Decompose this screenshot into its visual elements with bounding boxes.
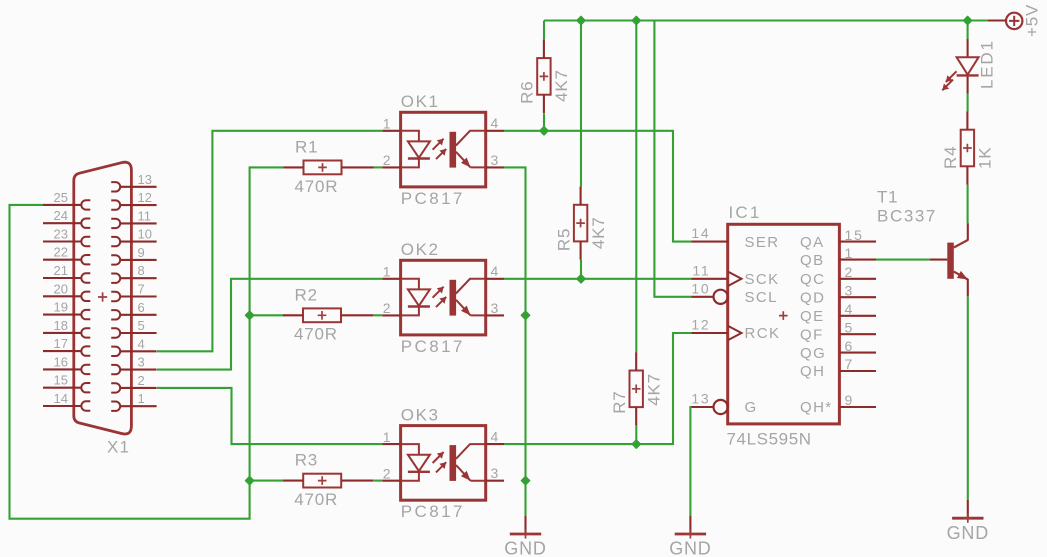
- svg-text:5: 5: [138, 318, 145, 333]
- optocoupler OK2 phototransistor: [450, 280, 457, 316]
- svg-text:14: 14: [691, 225, 710, 241]
- X1 pin 15: [81, 383, 90, 392]
- wire R4 to T1 collector: [967, 185, 969, 224]
- X1 pin 14: [81, 401, 90, 410]
- svg-text:BC337: BC337: [877, 207, 937, 226]
- svg-text:16: 16: [54, 354, 68, 369]
- X1 pin 19: [81, 310, 90, 319]
- svg-text:SCK: SCK: [745, 271, 780, 288]
- junction rail/R5: [577, 16, 585, 24]
- wire T1 emitter to GND: [967, 296, 969, 500]
- svg-text:QE: QE: [800, 308, 824, 325]
- optocoupler OK2 pin 3 stub: [486, 314, 504, 316]
- optocoupler OK1 pin 4 stub: [486, 130, 504, 132]
- X1 pin 16: [81, 365, 90, 374]
- svg-text:R2: R2: [295, 285, 318, 304]
- X1 pin 1: [111, 402, 120, 411]
- ground GND left pin stub: [524, 516, 526, 534]
- svg-text:7: 7: [845, 356, 855, 372]
- svg-text:4: 4: [491, 115, 499, 131]
- junction R6/OK1 pin4: [540, 127, 548, 135]
- svg-text:4K7: 4K7: [589, 216, 608, 249]
- svg-text:R5: R5: [554, 228, 573, 251]
- wire OK3 pin4 to RCK (node RCK): [504, 333, 692, 444]
- optocoupler OK2 light arrows: [433, 287, 444, 298]
- optocoupler OK1 light arrows: [433, 139, 444, 150]
- resistor R1 pin stubs: [284, 166, 304, 168]
- svg-text:R3: R3: [295, 451, 318, 470]
- svg-text:4: 4: [138, 336, 145, 351]
- junction OK2 pin3/GND bus: [521, 311, 529, 319]
- svg-text:QD: QD: [800, 289, 825, 306]
- svg-text:PC817: PC817: [401, 502, 465, 521]
- X1 pin 10: [111, 237, 120, 246]
- svg-text:2: 2: [845, 264, 855, 280]
- X1 pin 8: [111, 274, 120, 283]
- svg-text:3: 3: [845, 282, 855, 298]
- svg-text:470R: 470R: [294, 325, 338, 344]
- X1 pin 13: [111, 182, 120, 191]
- svg-text:SCL: SCL: [745, 289, 778, 306]
- X1 pin 25: [81, 200, 90, 209]
- svg-text:X1: X1: [107, 438, 130, 457]
- svg-text:8: 8: [138, 263, 145, 278]
- wire G pin to GND: [690, 407, 691, 516]
- optocoupler OK1 pin 3 stub: [486, 166, 504, 168]
- ground GND middle pin stub: [689, 516, 691, 534]
- svg-text:G: G: [745, 399, 758, 416]
- svg-text:R6: R6: [518, 81, 537, 104]
- svg-text:21: 21: [54, 263, 68, 278]
- IC1 pin 9 QH*: [839, 406, 876, 408]
- wire R5 bus from rail: [580, 21, 582, 187]
- svg-text:4K7: 4K7: [644, 373, 663, 406]
- ground GND left symbol: [510, 533, 541, 536]
- resistor R3 pin stubs: [283, 480, 303, 482]
- IC IC1 origin cross: [779, 311, 788, 320]
- wire R7 bottom to RCK net: [635, 425, 637, 444]
- svg-text:R7: R7: [610, 390, 629, 413]
- optocoupler OK3 pin 3 stub: [486, 480, 504, 482]
- resistor R3 body: [303, 474, 341, 488]
- svg-text:15: 15: [54, 373, 68, 388]
- svg-text:14: 14: [54, 391, 68, 406]
- svg-text:15: 15: [845, 227, 864, 243]
- wire LED1 to R4: [967, 94, 969, 112]
- power +5V symbol: [1006, 13, 1022, 29]
- svg-text:4: 4: [845, 301, 855, 317]
- IC1 pin 4 QE: [839, 315, 876, 317]
- ground GND right symbol: [952, 517, 983, 520]
- X1 pin 4: [111, 347, 120, 356]
- connector X1 origin cross: [98, 292, 107, 301]
- svg-text:PC817: PC817: [401, 189, 465, 208]
- IC IC1 body: [728, 224, 840, 424]
- svg-text:4: 4: [491, 429, 499, 445]
- junction common/R3: [246, 477, 254, 485]
- X1 pin 2: [111, 383, 120, 392]
- svg-text:25: 25: [54, 190, 68, 205]
- svg-text:470R: 470R: [295, 177, 339, 196]
- svg-text:470R: 470R: [294, 490, 338, 509]
- optocoupler OK1 body: [401, 112, 486, 187]
- svg-text:12: 12: [138, 190, 152, 205]
- resistor R1 body: [304, 161, 342, 175]
- svg-text:3: 3: [491, 152, 499, 168]
- IC1 pin 15 QA: [839, 241, 876, 243]
- optocoupler OK1 pin 1 stub: [382, 130, 400, 132]
- svg-text:R1: R1: [295, 138, 318, 157]
- svg-text:+5V: +5V: [1023, 4, 1042, 37]
- svg-text:6: 6: [845, 338, 855, 354]
- ground GND right pin stub: [967, 500, 969, 518]
- svg-text:2: 2: [138, 373, 145, 388]
- optocoupler OK3 pin 1 stub: [382, 443, 400, 445]
- X1 pin 12: [111, 200, 120, 209]
- X1 pin 9: [111, 255, 120, 264]
- svg-text:1: 1: [845, 245, 855, 261]
- svg-text:9: 9: [845, 392, 855, 408]
- wire X1 pin4 to OK1 pin1: [157, 131, 382, 351]
- wire R3 to OK3 pin2: [373, 480, 382, 482]
- wire OK2 pin4 to SCK (node SCK): [504, 278, 692, 280]
- connector X1 body: [74, 162, 132, 434]
- svg-text:24: 24: [54, 208, 68, 223]
- wire X1 pin3 to OK2 pin1: [157, 279, 382, 370]
- optocoupler OK2 pin 1 stub: [382, 278, 400, 280]
- junction common/R2: [246, 311, 254, 319]
- svg-text:10: 10: [138, 227, 152, 242]
- svg-text:3: 3: [491, 300, 499, 316]
- wire R7 bus from rail: [635, 21, 637, 353]
- svg-text:2: 2: [383, 152, 391, 168]
- svg-text:13: 13: [138, 172, 152, 187]
- wire X1 pin25 common return loop: [10, 167, 284, 518]
- wire R6 bottom to OK1 pin4 net: [543, 113, 545, 131]
- svg-text:18: 18: [54, 318, 68, 333]
- svg-text:2: 2: [383, 300, 391, 316]
- svg-text:11: 11: [138, 208, 152, 223]
- resistor R7 pin stubs: [635, 352, 637, 370]
- svg-text:IC1: IC1: [729, 203, 762, 222]
- optocoupler OK1 internal LED: [401, 131, 419, 168]
- wire X1 pin2 to OK3 pin1: [157, 388, 382, 444]
- svg-text:6: 6: [138, 300, 145, 315]
- junction R5/SCK: [577, 275, 585, 283]
- svg-text:74LS595N: 74LS595N: [727, 430, 812, 449]
- svg-text:SER: SER: [745, 234, 780, 251]
- svg-text:RCK: RCK: [745, 325, 781, 342]
- optocoupler OK2 body: [401, 260, 486, 335]
- IC1 pin 3 QD: [839, 296, 876, 298]
- X1 pin 3: [111, 365, 120, 374]
- svg-text:T1: T1: [877, 188, 898, 207]
- resistor R2 pin stubs: [283, 314, 303, 316]
- X1 pin 6: [111, 310, 120, 319]
- X1 pin 5: [111, 328, 120, 337]
- svg-text:QA: QA: [800, 234, 824, 251]
- transistor T1 collector pin: [967, 223, 969, 240]
- resistor R7 body: [630, 371, 643, 408]
- IC1 pin 11 SCK: [692, 278, 728, 280]
- svg-text:23: 23: [54, 227, 68, 242]
- optocoupler OK3 body: [401, 426, 486, 501]
- X1 pin 24: [81, 219, 90, 228]
- svg-text:22: 22: [54, 245, 68, 260]
- optocoupler OK2 pin 4 stub: [486, 278, 504, 280]
- wire R1 to OK1 pin2: [373, 166, 382, 168]
- transistor T1 body: [947, 243, 954, 279]
- svg-text:3: 3: [491, 465, 499, 481]
- X1 pin 18: [81, 328, 90, 337]
- svg-text:QF: QF: [800, 326, 824, 343]
- IC1 pin 2 QC: [839, 278, 876, 280]
- X1 pin 22: [81, 255, 90, 264]
- svg-text:4: 4: [491, 263, 499, 279]
- svg-text:1: 1: [383, 116, 391, 132]
- wire R5 bottom to SCK net: [580, 260, 582, 279]
- svg-text:12: 12: [691, 317, 710, 333]
- wire opto emitters to GND bus: [504, 167, 526, 515]
- IC1 pin 5 QF: [839, 333, 876, 335]
- IC1 pin 1 QB: [839, 259, 876, 261]
- optocoupler OK2 internal LED: [401, 279, 419, 316]
- svg-text:R4: R4: [941, 146, 960, 169]
- IC1 pin 7 QH: [839, 370, 876, 372]
- IC1 pin 14 SER: [692, 241, 728, 243]
- wire QB to T1 base: [876, 259, 930, 261]
- svg-text:1: 1: [383, 429, 391, 445]
- svg-text:GND: GND: [669, 539, 711, 557]
- resistor R6 pin stubs: [543, 40, 545, 58]
- wire +5V rail: [544, 19, 988, 21]
- IC1 pin 6 QG: [839, 352, 876, 354]
- junction OK3 pin3/GND bus: [521, 477, 529, 485]
- wire common to R3: [250, 480, 285, 482]
- ground GND middle symbol: [675, 533, 706, 536]
- X1 pin 17: [81, 346, 90, 355]
- svg-text:QC: QC: [800, 271, 825, 288]
- svg-text:OK1: OK1: [401, 92, 440, 111]
- transistor T1 emitter pin: [967, 279, 969, 296]
- optocoupler OK2 pin 2 stub: [382, 314, 400, 316]
- svg-text:19: 19: [54, 300, 68, 315]
- svg-text:10: 10: [691, 280, 710, 296]
- wire SCL bus from rail: [654, 21, 691, 297]
- X1 pin 11: [111, 219, 120, 228]
- svg-text:1: 1: [138, 391, 145, 406]
- svg-text:2: 2: [383, 466, 391, 482]
- svg-text:QH*: QH*: [800, 399, 833, 416]
- svg-text:20: 20: [54, 281, 68, 296]
- svg-text:1K: 1K: [976, 147, 995, 169]
- svg-text:QG: QG: [800, 345, 826, 362]
- optocoupler OK1 pin 2 stub: [382, 166, 400, 168]
- svg-text:3: 3: [138, 355, 145, 370]
- optocoupler OK3 internal LED: [401, 444, 419, 481]
- X1 pin 21: [81, 273, 90, 282]
- resistor R5 pin stubs: [580, 187, 582, 205]
- svg-text:13: 13: [691, 391, 710, 407]
- resistor R5 body: [574, 205, 587, 242]
- LED LED1 body: [957, 57, 979, 74]
- svg-text:11: 11: [692, 262, 710, 278]
- IC1 pin 13 G: [714, 400, 728, 414]
- resistor R6 body: [537, 58, 550, 95]
- wire common to R2: [250, 314, 285, 316]
- svg-text:OK2: OK2: [401, 240, 440, 259]
- resistor R4 pin stubs: [966, 111, 968, 129]
- optocoupler OK3 pin 2 stub: [382, 480, 400, 482]
- svg-text:OK3: OK3: [401, 405, 440, 424]
- X1 pin 7: [111, 292, 120, 301]
- resistor R2 body: [303, 308, 341, 322]
- svg-text:4K7: 4K7: [552, 69, 571, 102]
- svg-text:QH: QH: [800, 363, 825, 380]
- svg-text:1: 1: [383, 264, 391, 280]
- svg-text:7: 7: [138, 282, 145, 297]
- svg-text:17: 17: [54, 336, 68, 351]
- wire +5V to LED1: [967, 21, 969, 40]
- svg-text:PC817: PC817: [401, 337, 465, 356]
- LED LED1 pins: [967, 39, 969, 57]
- junction rail/R7: [632, 16, 640, 24]
- svg-text:LED1: LED1: [977, 39, 996, 89]
- wire R6 top to rail: [543, 21, 545, 41]
- wire R2 to OK2 pin2: [373, 314, 382, 316]
- wire OK1 pin4 to SER (node SER): [504, 131, 692, 242]
- svg-text:GND: GND: [947, 523, 989, 543]
- junction R7/RCK: [632, 440, 640, 448]
- X1 pin 23: [81, 237, 90, 246]
- IC1 pin 10 SCL: [714, 290, 728, 304]
- X1 pin 20: [81, 292, 90, 301]
- svg-text:9: 9: [138, 245, 145, 260]
- optocoupler OK1 phototransistor: [450, 132, 457, 168]
- IC1 pin 12 RCK: [692, 332, 728, 334]
- junction rail/LED1: [964, 16, 972, 24]
- resistor R4 body: [961, 130, 974, 167]
- optocoupler OK3 phototransistor: [450, 445, 457, 481]
- svg-text:5: 5: [845, 319, 855, 335]
- LED LED1 emission arrows: [946, 71, 957, 82]
- svg-text:QB: QB: [800, 252, 824, 269]
- svg-text:GND: GND: [504, 539, 546, 557]
- optocoupler OK3 pin 4 stub: [486, 443, 504, 445]
- optocoupler OK3 light arrows: [433, 452, 444, 463]
- transistor T1 base pin: [930, 259, 948, 261]
